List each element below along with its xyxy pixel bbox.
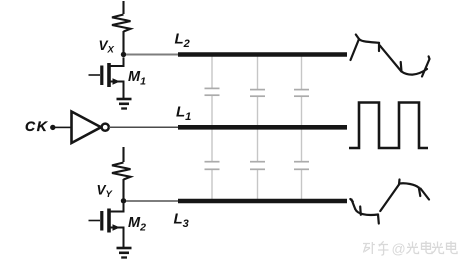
- wire: inverter output to line L1: [109, 126, 180, 128]
- wire: supply lead of bottom resistor: [122, 147, 124, 162]
- resistor R2 (pull-up at VY): [112, 163, 131, 180]
- waveform on L1 (square wave): [349, 103, 428, 149]
- line L3 (thick trace): [178, 199, 347, 204]
- watermark: 知乎 @光电光电 (drawn as light vector glyphs): [363, 241, 457, 257]
- ground (M2 source): [117, 248, 132, 258]
- capacitor column C6 (between L1 and L3, right): [294, 129, 309, 200]
- inverter U1: [72, 112, 109, 144]
- wire: resistor R2 to node VY: [122, 179, 124, 201]
- ground (M1 source): [117, 99, 132, 109]
- waveform on L3 (distorted wave): [350, 180, 429, 224]
- wire: supply lead of top resistor: [122, 1, 124, 14]
- node VX junction dot: [121, 52, 126, 57]
- svg-text:CK: CK: [25, 118, 48, 134]
- line L1 (thick trace): [178, 125, 347, 130]
- capacitor column C5 (between L1 and L3, middle): [250, 129, 265, 200]
- capacitor column C2 (between L2 and L1, middle): [250, 56, 265, 126]
- line L2 (thick trace): [178, 52, 347, 57]
- capacitor column C4 (between L1 and L3, left): [205, 129, 220, 200]
- node CK input dot: [50, 125, 55, 130]
- wire: CK to inverter input: [55, 126, 71, 128]
- node VY junction dot: [121, 198, 126, 203]
- resistor R1 (pull-up at VX): [112, 15, 131, 32]
- capacitor column C3 (between L2 and L1, right): [294, 56, 309, 126]
- transistor M1 (NMOS): [89, 58, 124, 99]
- wire: resistor R1 to node VX: [122, 31, 124, 54]
- capacitor column C1 (between L2 and L1, left): [205, 56, 220, 126]
- svg-text:@: @: [392, 241, 406, 257]
- transistor M2 (NMOS): [89, 204, 124, 248]
- wire: node VY to line L3 (thin segment): [126, 200, 179, 202]
- wire: node VX to line L2 (thin segment): [126, 54, 179, 56]
- waveform on L2 (distorted wave): [351, 35, 430, 77]
